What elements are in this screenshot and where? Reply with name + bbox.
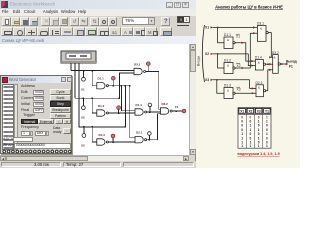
svg-text:Выход: Выход xyxy=(286,59,297,63)
junction dot F1 xyxy=(281,63,283,65)
wire bus vertical crossing xyxy=(124,86,126,127)
svg-text:X1: X1 xyxy=(205,26,209,30)
horizontal scrollbar xyxy=(0,155,189,161)
svg-text:1: 1 xyxy=(258,144,260,148)
wire bus X2 jog to gate D2.1 lower input xyxy=(119,73,134,98)
wire D3.1 output to gate D3.2 xyxy=(147,114,161,140)
vertical scrollbar xyxy=(189,44,196,155)
gate D3.2 output bubble xyxy=(278,63,280,65)
wire X2 drop to gate D1.2 xyxy=(92,98,97,113)
buttons column xyxy=(50,89,71,95)
wire icon output 1 to X1 line xyxy=(70,63,72,71)
junction dot D1.4 out xyxy=(267,64,269,66)
wire D3.1 output to D3.2 xyxy=(268,33,273,58)
word list xyxy=(2,84,14,150)
gate D1.1 output bubble xyxy=(233,42,235,44)
probe D2.1 red indicator xyxy=(146,62,150,66)
toolbar row 1 xyxy=(0,16,196,26)
gate D1.3 xyxy=(97,139,109,145)
wire D1.2 output to D3.1 xyxy=(235,33,257,68)
svg-text:X2: X2 xyxy=(248,110,252,114)
svg-text:F1: F1 xyxy=(289,64,293,68)
probe D1.3 red indicator xyxy=(111,134,115,138)
Frequency xyxy=(21,126,39,130)
svg-text:D3.1: D3.1 xyxy=(134,63,141,67)
wire X3 drop to D1.3 xyxy=(217,80,224,93)
gate D3.2 xyxy=(273,55,279,74)
gate D1.3 output bubble xyxy=(233,92,235,94)
arrow into D3.1 input 1 xyxy=(253,26,255,28)
svg-text:X2: X2 xyxy=(237,64,241,68)
svg-text:Входы: Входы xyxy=(197,55,201,66)
wire D1.2 output to gate D2.2 xyxy=(108,112,135,114)
svg-text:&: & xyxy=(258,60,260,64)
svg-text:&: & xyxy=(260,26,262,30)
gate D2.1 xyxy=(134,68,146,74)
probe stem D1.3 xyxy=(112,138,114,142)
wire D1.4 output to D3.2 xyxy=(266,63,273,65)
label X3 inverted xyxy=(236,87,240,91)
svg-text:X2: X2 xyxy=(81,116,85,120)
svg-text:Анализ работы ЦУ в базисе И-НЕ: Анализ работы ЦУ в базисе И-НЕ xyxy=(215,4,283,9)
probe D1.2 red indicator xyxy=(117,106,121,110)
wire X1 horizontal line xyxy=(71,70,134,72)
svg-text:видеоуроки 1.4, 1.5, 1.9: видеоуроки 1.4, 1.5, 1.9 xyxy=(237,152,279,156)
label X2 inverted xyxy=(236,64,240,68)
svg-text:D1.1: D1.1 xyxy=(224,33,231,37)
wire D3.2 output to probe F1 xyxy=(172,110,182,112)
gate D1.3 xyxy=(224,88,233,99)
power switch xyxy=(177,16,190,23)
node X2 terminal xyxy=(82,98,86,110)
menu bar xyxy=(0,9,196,16)
gate D2.2 xyxy=(135,109,147,115)
svg-text:X3: X3 xyxy=(237,87,241,91)
junction dot X1 xyxy=(217,27,219,29)
panel title xyxy=(215,4,283,9)
gate D1.2 xyxy=(224,63,233,74)
ASCII / Binary xyxy=(3,138,13,142)
probe F1 red indicator xyxy=(182,109,186,113)
arrow into D3.2 input 3 xyxy=(269,69,271,71)
svg-text:D1.2: D1.2 xyxy=(98,104,105,108)
truth table xyxy=(238,108,271,149)
wire X3 drop to gate D1.3 xyxy=(92,127,97,142)
junction dot X3 xyxy=(216,79,218,81)
arrow on X1 inverted wire xyxy=(242,42,244,44)
wire X3 horizontal line xyxy=(79,126,126,128)
gate D3.1 xyxy=(135,137,147,143)
wire icon output 2 to X2 line xyxy=(74,63,76,98)
wire D1.1 output to D1.4 xyxy=(235,43,255,61)
arrow into D2.1 input 1 xyxy=(252,87,254,89)
arrow output F1 xyxy=(286,63,288,65)
junction dot X2 xyxy=(217,53,219,55)
wire D2.1 output to gate D3.2 xyxy=(146,72,161,110)
terminals row xyxy=(2,149,72,154)
arrow on X2 inverted wire xyxy=(242,67,244,69)
node X1 terminal xyxy=(82,71,86,82)
gate D3.1 xyxy=(257,26,266,42)
svg-text:Y1: Y1 xyxy=(265,110,269,114)
svg-text:D1.3: D1.3 xyxy=(99,133,106,137)
wire bus D1.1 out down to gate D3.1 upper input xyxy=(130,86,135,138)
probe D1.1 red indicator xyxy=(111,76,115,80)
gate D1.4 output bubble xyxy=(263,63,265,65)
wire X1 drop to D1.1 xyxy=(218,27,224,42)
word generator icon XWG1 xyxy=(61,51,96,63)
arrow into D3.1 input 2 xyxy=(253,32,255,34)
arrow into D1.4 input 1 xyxy=(251,60,253,62)
wire D2.1 output to D3.2 xyxy=(266,70,273,91)
white circuit canvas xyxy=(0,44,189,155)
svg-text:D2.1: D2.1 xyxy=(256,81,263,85)
wire icon output 3 to X3 line xyxy=(78,63,80,127)
Trigger group xyxy=(23,114,35,118)
arrow X3 xyxy=(211,79,213,81)
node X3 terminal xyxy=(82,127,86,137)
wire bus D1.1 out down to gate D2.2 upper input xyxy=(121,86,135,111)
arrow into D3.2 input 1 xyxy=(269,56,271,58)
gate D2.1 xyxy=(256,85,264,97)
svg-text:1: 1 xyxy=(266,144,268,148)
Word Generator instrument dialog xyxy=(0,75,72,154)
gate D2.1 output bubble xyxy=(264,90,266,92)
table data xyxy=(241,115,268,148)
svg-text:X2: X2 xyxy=(205,52,209,56)
svg-text:D1.2: D1.2 xyxy=(224,59,231,63)
right analysis panel xyxy=(196,0,300,168)
gate D1.2 xyxy=(97,110,109,116)
child window title bar xyxy=(0,36,196,44)
wire D1.1 output xyxy=(108,85,129,87)
gate symbols & xyxy=(227,26,276,92)
svg-text:X1: X1 xyxy=(240,110,244,114)
toolbar row 2 xyxy=(0,26,196,36)
svg-text:D2.1: D2.1 xyxy=(136,130,143,134)
svg-text:D1.3: D1.3 xyxy=(224,84,231,88)
svg-text:X3: X3 xyxy=(205,78,209,82)
svg-text:&: & xyxy=(258,86,260,90)
gate D1.4 xyxy=(255,60,263,71)
svg-text:&: & xyxy=(227,88,229,92)
arrow into D1.4 input 2 xyxy=(251,64,253,66)
wire D1.3 output to D2.1 xyxy=(235,92,256,94)
svg-text:D1.4: D1.4 xyxy=(255,56,262,60)
inputs bracket xyxy=(202,25,204,82)
svg-text:D3.2: D3.2 xyxy=(162,102,169,106)
svg-text:&: & xyxy=(227,38,229,42)
svg-text:D3.1: D3.1 xyxy=(257,22,264,26)
probe stem D1.2 xyxy=(118,109,120,113)
svg-text:X3: X3 xyxy=(257,110,261,114)
gate D3.1 output bubble xyxy=(266,31,268,33)
status bar xyxy=(0,161,196,168)
wire output F1 xyxy=(280,63,287,65)
Address group xyxy=(21,85,35,89)
svg-text:D3.2: D3.2 xyxy=(272,51,279,55)
wire input X2 xyxy=(213,53,249,55)
gate D1.1 xyxy=(224,37,233,49)
node tap on D3.1 output xyxy=(148,132,152,140)
node tap on D2.2 output xyxy=(148,103,152,112)
svg-text:&: & xyxy=(274,56,276,60)
arrow into D3.2 input 2 xyxy=(269,63,271,65)
wire X2 to D1.4 input xyxy=(248,54,255,66)
main title bar xyxy=(0,0,196,9)
svg-text:X3: X3 xyxy=(81,144,85,148)
probe stem D2.1 xyxy=(147,66,149,72)
svg-text:F1: F1 xyxy=(175,105,179,109)
wire D1.3 output to gate D3.1 xyxy=(108,141,135,143)
svg-text:&: & xyxy=(227,63,229,67)
arrow X2 xyxy=(211,53,213,55)
wire X2 drop to D1.2 xyxy=(218,54,224,68)
wire D2.2 output to gate D3.2 xyxy=(147,111,161,113)
svg-text:X1: X1 xyxy=(236,34,240,38)
svg-text:D1.1: D1.1 xyxy=(98,77,105,81)
wire X1 drop to gate D1.1 xyxy=(92,71,97,86)
EWB main application window xyxy=(0,0,196,168)
arrow into D2.1 input 2 xyxy=(252,92,254,94)
gate D3.2 xyxy=(161,108,173,114)
wire X2 horizontal line xyxy=(75,97,119,99)
probe stem D1.1 xyxy=(112,80,114,86)
label X1 inverted xyxy=(236,34,240,38)
header cells xyxy=(239,108,270,113)
wire X3 to D2.1 input xyxy=(250,80,256,89)
svg-text:1: 1 xyxy=(250,144,252,148)
svg-text:X1: X1 xyxy=(81,88,85,92)
wire input X1 xyxy=(213,26,258,28)
svg-text:1: 1 xyxy=(241,144,243,148)
svg-text:D1.4: D1.4 xyxy=(136,103,143,107)
gate D1.1 xyxy=(97,83,109,89)
gate D1.2 output bubble xyxy=(233,67,235,69)
arrow X1 xyxy=(211,26,213,28)
wire input X3 xyxy=(213,79,250,81)
junction dots xyxy=(83,70,85,72)
